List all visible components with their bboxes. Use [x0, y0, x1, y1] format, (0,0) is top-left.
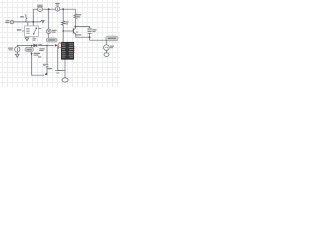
wire top rail mid [42, 8, 55, 10]
chip pin name text right column [69, 43, 74, 57]
ground GND2 (below relay) [25, 38, 29, 41]
wire cap branch vertical [46, 45, 48, 75]
label J1 text [34, 53, 40, 56]
label R1 text [66, 21, 69, 24]
speaker LS1 [88, 28, 92, 33]
wire mic horizontal [14, 21, 41, 23]
ground GND1 (below B1) [15, 54, 19, 57]
chip pin name text left column [62, 43, 66, 57]
wire vertical to mic line [32, 9, 34, 22]
wire input run with diode [17, 45, 33, 46]
source V2 (bottom-right circle) [104, 45, 110, 51]
wire base feed [63, 30, 73, 32]
wire speaker bottom [90, 33, 107, 44]
lamp LA1 [47, 29, 52, 34]
wire top rail left [33, 8, 37, 10]
resistor R2 [74, 14, 77, 20]
microphone MIC1 [10, 20, 13, 23]
ellipse ground GND5 (below chip bottom pin) [62, 78, 68, 82]
relay pin text below [33, 38, 37, 40]
wire relay bottom stub [27, 36, 34, 39]
wire relay top stubs [28, 22, 33, 26]
wire chip left node down to ground [57, 46, 59, 70]
wire top rail right [60, 9, 76, 13]
relay coil bars [26, 28, 29, 33]
junction dots [31, 8, 91, 46]
wire relay left stub [22, 30, 24, 32]
junction arrow J1 (on vertical drop) [31, 53, 33, 55]
svg-text:}: } [25, 13, 28, 22]
background [0, 0, 120, 87]
wire down from junction [32, 45, 45, 75]
transistor Q1 [73, 28, 75, 34]
ground GND4 (below chip left) [55, 71, 60, 74]
wire rail to lamp [48, 9, 50, 38]
IC U1 chip body [61, 42, 74, 59]
wire collector node to speaker [75, 19, 89, 28]
capacitor C1 plates [46, 65, 49, 67]
ground flag GND3 (top, right of relay) [40, 20, 44, 23]
label LA1 text [52, 30, 57, 33]
wire chip bottom pin down [58, 59, 65, 78]
wire emitter run [76, 34, 90, 37]
relay K1 box [25, 26, 39, 37]
wire R1 drop [62, 9, 64, 21]
wire relay right contact to gnd flag [39, 28, 42, 30]
relay switch lever [33, 28, 37, 35]
label mid text [38, 56, 41, 57]
label RLY1 text [20, 16, 23, 17]
chip left red pins [58, 42, 62, 49]
fuse F1 (small circle with bar) [55, 7, 59, 11]
net label oval L3 with leader [106, 36, 118, 41]
relay left pin text [17, 29, 22, 30]
net label oval L1 [25, 47, 33, 51]
wire source2 gnd stub [16, 52, 18, 54]
chip right red pins [74, 47, 75, 53]
label MIC1 text [5, 20, 9, 23]
wire arrowhead into chip [55, 44, 58, 46]
label V1 text [37, 5, 43, 8]
wire arrowhead 2 [45, 72, 47, 75]
diode D1 [34, 44, 37, 47]
label Q1 text [75, 32, 81, 36]
label F1 text [55, 3, 59, 6]
wire R1 to chip top pin [62, 26, 64, 42]
label R2 text [77, 14, 81, 17]
ellipse ground GND6 (below V2) [104, 53, 109, 57]
label C1 text [43, 64, 46, 66]
net label oval L2 [46, 38, 57, 42]
label LS1 text [92, 29, 96, 32]
wire source3 to ellipse gnd [105, 50, 107, 52]
label B1 text [8, 48, 13, 51]
resistor R1 [61, 21, 65, 26]
source V1 (top circle with +/-) [38, 7, 43, 12]
grid pattern [0, 0, 120, 87]
label D1 text [38, 44, 44, 51]
wire diode to chip arrow [38, 44, 54, 46]
label V2 text [110, 46, 114, 49]
source B1 (bottom-left circle) [15, 47, 20, 52]
label near arrow2 [47, 68, 52, 69]
